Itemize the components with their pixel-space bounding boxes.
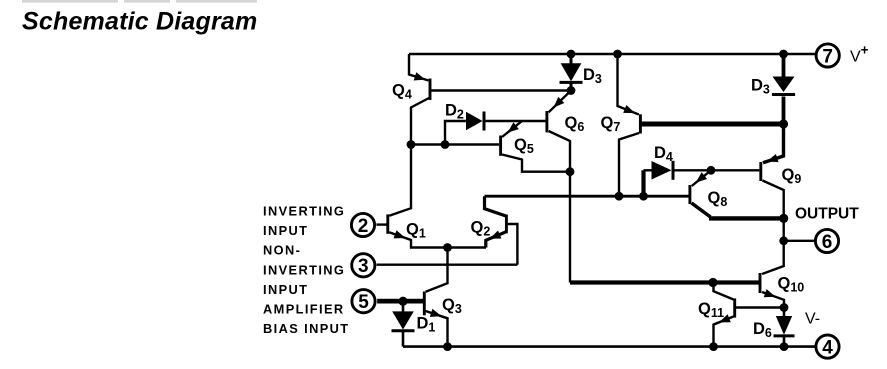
svg-text:INPUT: INPUT [263, 223, 308, 238]
svg-text:V+: V+ [850, 43, 869, 66]
svg-text:INVERTING: INVERTING [263, 203, 345, 218]
svg-text:NON-: NON- [263, 243, 301, 258]
svg-text:3: 3 [358, 256, 369, 277]
svg-text:Q1: Q1 [406, 221, 426, 241]
svg-text:INVERTING: INVERTING [263, 262, 345, 277]
svg-text:Q5: Q5 [514, 136, 534, 156]
svg-text:6: 6 [822, 232, 833, 253]
svg-text:5: 5 [358, 292, 369, 313]
svg-text:D2: D2 [445, 102, 464, 122]
svg-text:Q3: Q3 [442, 296, 462, 316]
svg-text:Q11: Q11 [698, 300, 724, 320]
svg-text:D3: D3 [751, 77, 770, 97]
svg-text:Schematic Diagram: Schematic Diagram [22, 8, 257, 36]
svg-text:2: 2 [358, 216, 369, 237]
svg-text:D4: D4 [654, 144, 673, 164]
svg-text:OUTPUT: OUTPUT [795, 206, 859, 223]
svg-text:4: 4 [822, 337, 833, 358]
svg-text:D3: D3 [583, 66, 602, 86]
svg-text:D6: D6 [753, 320, 772, 340]
svg-text:Q9: Q9 [782, 166, 802, 186]
svg-text:V-: V- [805, 311, 820, 328]
svg-text:Q8: Q8 [708, 189, 728, 209]
svg-text:INPUT: INPUT [263, 282, 308, 297]
svg-text:AMPLIFIER: AMPLIFIER [263, 302, 345, 317]
svg-text:D1: D1 [417, 315, 436, 335]
svg-text:Q10: Q10 [778, 275, 805, 295]
svg-text:Q2: Q2 [471, 218, 491, 238]
svg-text:Q6: Q6 [565, 114, 585, 134]
svg-text:Q4: Q4 [392, 81, 412, 101]
svg-text:Q7: Q7 [601, 114, 621, 134]
svg-text:7: 7 [822, 46, 833, 67]
svg-text:BIAS INPUT: BIAS INPUT [263, 321, 350, 336]
